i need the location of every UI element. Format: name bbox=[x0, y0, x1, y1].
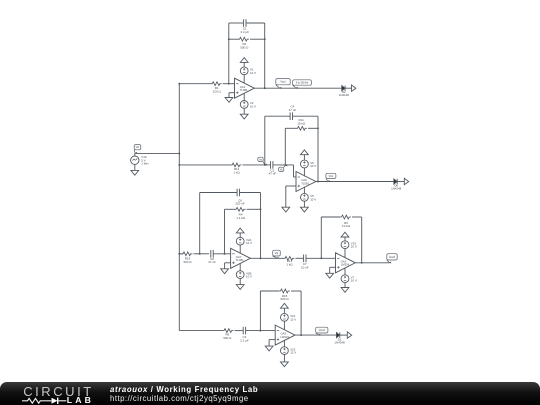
svg-text:TL081: TL081 bbox=[301, 181, 309, 185]
svg-text:1.1 kΩ: 1.1 kΩ bbox=[236, 216, 246, 220]
svg-text:10 V: 10 V bbox=[246, 241, 252, 245]
svg-text:Vlp: Vlp bbox=[275, 252, 279, 255]
svg-text:1 kHz: 1 kHz bbox=[141, 162, 149, 166]
svg-text:Vout3: Vout3 bbox=[389, 256, 396, 259]
svg-text:47 nF: 47 nF bbox=[269, 172, 277, 176]
svg-text:10 V: 10 V bbox=[246, 275, 252, 279]
svg-text:10 V: 10 V bbox=[310, 164, 316, 168]
svg-text:220 nF: 220 nF bbox=[235, 202, 245, 206]
svg-text:12 V: 12 V bbox=[290, 317, 296, 321]
svg-text:1N4148: 1N4148 bbox=[339, 93, 350, 97]
svg-text:1 kΩ: 1 kΩ bbox=[233, 170, 240, 174]
svg-text:LM324: LM324 bbox=[341, 263, 350, 267]
svg-text:500 Ω: 500 Ω bbox=[281, 297, 290, 301]
svg-text:Vbp: Vbp bbox=[329, 175, 334, 178]
svg-text:2.2 μF: 2.2 μF bbox=[240, 338, 249, 342]
svg-text:2.2 μF: 2.2 μF bbox=[241, 30, 250, 34]
svg-text:0 to 300 Hz: 0 to 300 Hz bbox=[296, 82, 309, 85]
svg-text:12 V: 12 V bbox=[290, 351, 296, 355]
svg-text:10 V: 10 V bbox=[351, 279, 357, 283]
svg-text:1N4148: 1N4148 bbox=[391, 187, 402, 191]
svg-text:47 nF: 47 nF bbox=[289, 108, 297, 112]
svg-text:10 V: 10 V bbox=[250, 71, 256, 75]
svg-text:TL081: TL081 bbox=[240, 88, 248, 92]
svg-text:10 nF: 10 nF bbox=[301, 265, 309, 269]
svg-text:500 Ω: 500 Ω bbox=[183, 260, 192, 264]
svg-text:10 V: 10 V bbox=[351, 245, 357, 249]
svg-text:47 nF: 47 nF bbox=[208, 260, 216, 264]
svg-text:1N4148: 1N4148 bbox=[335, 341, 346, 345]
svg-text:1 kΩ: 1 kΩ bbox=[286, 262, 293, 266]
svg-text:10 V: 10 V bbox=[310, 197, 316, 201]
svg-text:120 Ω: 120 Ω bbox=[213, 89, 222, 93]
svg-text:10 kΩ: 10 kΩ bbox=[297, 121, 306, 125]
svg-text:10 kΩ: 10 kΩ bbox=[342, 224, 351, 228]
svg-text:500 Ω: 500 Ω bbox=[240, 45, 249, 49]
svg-text:500 Ω: 500 Ω bbox=[223, 336, 232, 340]
svg-text:LM324: LM324 bbox=[280, 335, 289, 339]
svg-text:Vout4: Vout4 bbox=[319, 329, 326, 332]
svg-text:Vout: Vout bbox=[280, 81, 285, 84]
svg-text:10 V: 10 V bbox=[250, 104, 256, 108]
svg-text:TL081: TL081 bbox=[236, 258, 244, 262]
